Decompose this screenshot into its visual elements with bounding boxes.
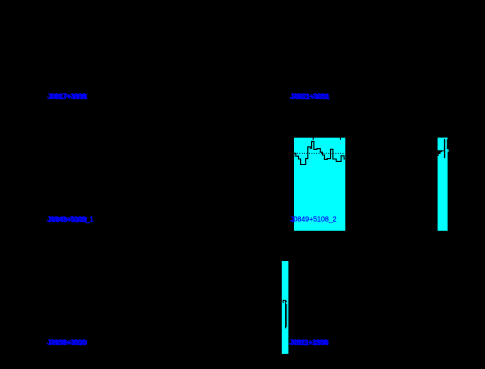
bottom strip curve <box>283 300 286 328</box>
label J0817+3938 <box>47 93 87 101</box>
svg-text:J: J <box>291 217 295 224</box>
right strip box (cyan) <box>438 138 448 231</box>
svg-text:J0836+3010: J0836+3010 <box>48 340 87 347</box>
profile first-bin cyan bump <box>293 153 294 155</box>
svg-text:J0849+5108: J0849+5108 <box>48 217 87 224</box>
label J0849+5108_1 <box>47 216 94 224</box>
panel R2C2 profile box (cyan) <box>294 138 345 231</box>
svg-text:J0817+3938: J0817+3938 <box>49 94 88 101</box>
label J0836+3010 <box>47 339 87 347</box>
label J0849+5108_2 <box>290 216 337 224</box>
top tick 2 <box>340 138 341 140</box>
right strip staircase connector <box>442 150 444 151</box>
bottom strip dark sliver <box>286 304 287 327</box>
right strip curve vertical <box>444 139 445 158</box>
pulse profile histogram <box>294 141 346 164</box>
bottom strip curve stub <box>286 300 287 303</box>
dotted baseline <box>295 152 346 154</box>
label J0821+3031 <box>290 93 330 101</box>
svg-text:J0849+5108_2: J0849+5108_2 <box>290 216 337 223</box>
right strip bump <box>448 149 449 152</box>
svg-text:J0821+3031: J0821+3031 <box>291 94 330 101</box>
svg-text:J0911+1938: J0911+1938 <box>291 340 329 347</box>
right strip left staircase <box>438 150 442 156</box>
top tick 1 <box>313 138 314 140</box>
label J0911+1938 <box>289 339 329 347</box>
right strip right-edge dark sliver <box>446 139 449 149</box>
bottom strip box (cyan) <box>282 261 289 354</box>
